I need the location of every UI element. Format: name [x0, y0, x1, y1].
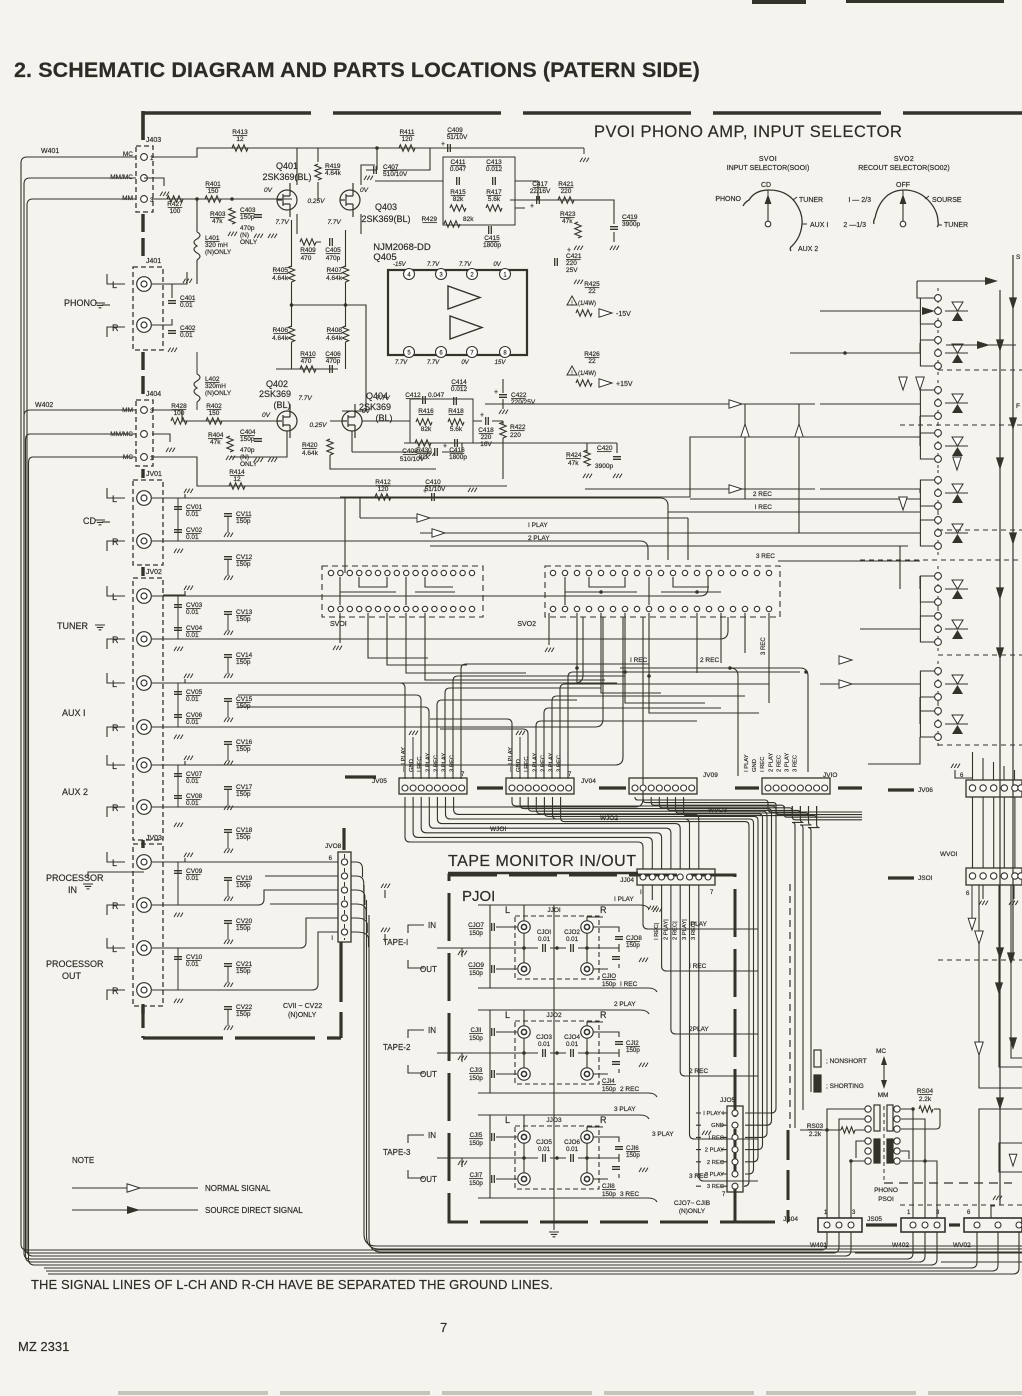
WV02 pin3	[1016, 1222, 1022, 1228]
right vline 2	[1012, 255, 1014, 960]
WV02 pin1	[974, 1222, 980, 1228]
svg-text:WJO2: WJO2	[600, 815, 618, 822]
svg-text:L: L	[112, 494, 117, 504]
svg-text:150p: 150p	[236, 561, 251, 568]
JS04 pin2	[836, 1222, 842, 1228]
JJ04 pin 6	[687, 874, 693, 880]
svg-text:CJII: CJII	[470, 1027, 481, 1034]
svg-text:I REC: I REC	[630, 657, 648, 664]
svg-text:CV16: CV16	[236, 739, 253, 746]
JV04 pin 6	[550, 785, 556, 791]
heavy dash b	[477, 786, 503, 789]
JV08 curl 3	[351, 890, 365, 905]
svg-text:2PLAY: 2PLAY	[689, 1026, 709, 1033]
svg-text:2SK369(BL): 2SK369(BL)	[361, 214, 410, 224]
svg-text:ONLY: ONLY	[240, 239, 258, 246]
svg-text:WJOI: WJOI	[490, 826, 506, 833]
JJOI left rail	[490, 905, 517, 988]
CD gnd stub	[102, 521, 110, 523]
svg-text:0V: 0V	[362, 408, 371, 415]
JV05 pin 6	[443, 785, 449, 791]
svg-text:3900p: 3900p	[595, 463, 613, 470]
svg-text:220: 220	[561, 188, 572, 195]
PS01 wire L2	[839, 1119, 865, 1218]
JV08 heavy top	[342, 828, 345, 850]
wire W402 MM/MC	[26, 434, 926, 1262]
svg-text:CV12: CV12	[236, 554, 253, 561]
Q405 pin 3	[436, 269, 447, 280]
top heavy border corner	[141, 111, 145, 140]
svg-text:PHONO: PHONO	[874, 1187, 898, 1194]
wire JV04 pin4 feed	[536, 721, 697, 779]
right dashed h 1205	[900, 1204, 1022, 1206]
R404 gnd	[226, 456, 235, 460]
svg-text:150p: 150p	[236, 1011, 251, 1018]
switch SW7 pin3	[935, 599, 942, 606]
svg-text:100: 100	[170, 208, 181, 215]
svg-text:CJI6: CJI6	[626, 1145, 639, 1152]
svg-text:PROCESSOR: PROCESSOR	[46, 873, 104, 883]
JV04 pin 5	[541, 785, 547, 791]
JJOI jack R in	[581, 921, 593, 933]
svg-text:J404: J404	[146, 391, 161, 398]
switch SW2 bracket	[920, 340, 934, 366]
AUX1 jack R	[137, 720, 152, 735]
svg-text:150p: 150p	[236, 659, 251, 666]
op-amp U Q405 box	[388, 270, 527, 355]
SV02 inner wires	[565, 577, 721, 605]
PS01 wire R1b	[934, 1108, 940, 1110]
amp wire b	[297, 165, 375, 234]
right vline2 arrow 1050	[1009, 1037, 1017, 1050]
svg-text:CV04: CV04	[186, 625, 203, 632]
svg-text:ONLY: ONLY	[240, 461, 258, 468]
svg-text:JV02: JV02	[146, 569, 162, 576]
wire JV05 pin8 feed	[461, 664, 649, 779]
JJ04 below wire 3	[662, 885, 758, 971]
transistor Q403	[340, 190, 360, 210]
right vline 1	[999, 290, 1001, 1205]
SV02 bot pin 4	[586, 606, 591, 611]
right edge switch tri	[1009, 1154, 1017, 1166]
R403 gnd	[228, 232, 237, 236]
transistor Q402	[277, 411, 297, 431]
wire 2rec low	[690, 668, 808, 772]
SV01 bot pin 15	[460, 606, 465, 611]
switch SW9 tri hollow	[952, 675, 963, 684]
bundle JV09 wire 3	[651, 797, 784, 808]
SV02 bot pin 1	[550, 606, 555, 611]
svg-text:R416: R416	[418, 408, 434, 415]
JV08 bundle 1	[364, 885, 1022, 1246]
Q405 pin 1	[500, 269, 511, 280]
svg-text:150p: 150p	[236, 791, 251, 798]
SV01 bot pin 10	[413, 606, 418, 611]
svg-text:3 REC: 3 REC	[707, 1184, 724, 1190]
resistor R416	[416, 419, 432, 425]
JV09 pin 6	[673, 785, 679, 791]
connector JV02	[133, 578, 163, 840]
JJOI jack R out	[581, 963, 593, 975]
heavy chain seg2	[141, 352, 144, 396]
colA gnd	[174, 913, 183, 917]
jack gnd stub	[163, 761, 185, 765]
SV02 needle	[902, 200, 904, 224]
svg-text:C420: C420	[597, 445, 613, 452]
TAPE-2 bracket	[408, 1030, 424, 1073]
connector J401	[133, 267, 163, 350]
svg-text:7.7V: 7.7V	[376, 395, 390, 402]
JJO3 left rail	[490, 1115, 517, 1198]
amp mid wires	[276, 220, 366, 411]
note line 1	[72, 1187, 198, 1189]
wire JV04 pin1 feed	[430, 719, 512, 779]
svg-text:JSOI: JSOI	[918, 875, 933, 882]
JJ05 wire 6	[696, 1173, 727, 1175]
svg-text:R414: R414	[229, 469, 245, 476]
svg-text:R: R	[112, 537, 119, 547]
svg-text:3 PLAY|: 3 PLAY|	[682, 919, 688, 940]
JV04 pin 2	[517, 785, 523, 791]
switch SW2 pin1	[935, 337, 942, 344]
switch SW8 pin1	[935, 613, 942, 620]
switch SW1 tri hollow	[952, 302, 963, 311]
sw entry 8	[860, 576, 920, 629]
PS01 wire R3	[901, 1119, 925, 1218]
bundle JV10 wire 5	[792, 806, 803, 1128]
bundle JV04 wire 6	[553, 797, 754, 1174]
switch SW4 pin1	[935, 430, 942, 437]
SV01 tick tuner	[793, 197, 797, 200]
right drop short1	[971, 885, 973, 920]
ps arrow down	[881, 1080, 887, 1089]
JV06 gnd wire	[955, 770, 972, 778]
JJ04 pin 8	[705, 874, 711, 880]
right drop wire 2	[982, 797, 984, 868]
jack gnd stub	[163, 858, 185, 862]
PS01 TL bar	[874, 1105, 880, 1131]
legend shorting sym	[814, 1075, 821, 1092]
wire W402 MC	[29, 457, 938, 1265]
JJ05 wire 3	[696, 1136, 727, 1138]
capacitor CV03	[174, 605, 182, 608]
svg-text:CJO7~ CJIB: CJO7~ CJIB	[674, 1200, 710, 1207]
svg-text:CV01: CV01	[186, 504, 203, 511]
svg-text:W402: W402	[35, 402, 53, 409]
svg-text:0.01: 0.01	[186, 875, 199, 882]
JV08 gnds	[381, 884, 390, 888]
svg-text:150p: 150p	[236, 882, 251, 889]
wire MM to amp	[152, 198, 292, 200]
warn R426	[567, 366, 577, 375]
svg-text:R403: R403	[210, 211, 226, 218]
JS01 gnds	[979, 901, 988, 905]
svg-text:C412: C412	[405, 392, 421, 399]
svg-text:I REC: I REC	[760, 757, 766, 772]
switch SW9 pin3	[935, 694, 942, 701]
svg-text:TAPE-3: TAPE-3	[383, 1148, 411, 1157]
switch SW8 bar	[945, 628, 968, 630]
svg-text:(N)ONLY: (N)ONLY	[288, 1012, 317, 1019]
svg-text:+15V: +15V	[616, 381, 633, 388]
bus wire 1REC	[668, 511, 920, 513]
CV16 stem	[227, 745, 229, 761]
CV21 gnd	[224, 983, 233, 987]
svg-text:12: 12	[233, 476, 241, 483]
connector JV03	[133, 844, 163, 1006]
JV08 left stub 1	[152, 861, 338, 863]
JV08 bundle 2	[367, 900, 1022, 1249]
jack top gnd	[184, 853, 193, 857]
C421 gnd	[574, 280, 583, 284]
PS01 TL pins	[865, 1106, 871, 1112]
svg-text:+: +	[494, 389, 498, 396]
right drop wire 4	[1003, 797, 1005, 868]
svg-text:0.01: 0.01	[186, 961, 199, 968]
svg-text:100: 100	[174, 410, 185, 417]
capacitor CV13	[224, 612, 232, 615]
right drop wire 5	[1014, 797, 1016, 868]
svg-text:AUX I: AUX I	[62, 708, 86, 718]
colA gnd	[174, 823, 183, 827]
bus wire 3REC	[778, 560, 920, 562]
JV08 pin 4	[341, 901, 347, 907]
AUX1 bracket R	[107, 727, 125, 737]
heavy chain JV03 down	[141, 1004, 144, 1038]
tape center gnd	[549, 1232, 559, 1237]
svg-text:PROCESSOR: PROCESSOR	[46, 959, 104, 969]
switch SW4 tri hollow	[952, 437, 963, 446]
cap col A line	[177, 498, 179, 541]
svg-text:2 REC: 2 REC	[776, 755, 782, 772]
bundle JV04 wire 2	[520, 797, 771, 1125]
svg-text:150p: 150p	[602, 1191, 616, 1198]
svg-text:0V: 0V	[461, 360, 469, 366]
svg-text:3: 3	[852, 1210, 856, 1216]
JJOI jack stems	[524, 905, 603, 963]
svg-text:510/10V: 510/10V	[400, 456, 425, 463]
svg-text:0.047: 0.047	[428, 392, 445, 399]
SV02 top pin 15	[718, 570, 723, 575]
amp wire a	[297, 148, 318, 214]
svg-text:C422: C422	[511, 392, 527, 399]
CV22 stem	[227, 1010, 229, 1026]
resistor R421	[558, 197, 574, 203]
wire AUX1 L run	[152, 617, 583, 683]
resistor R404	[227, 436, 233, 452]
svg-text:I REC: I REC	[620, 981, 638, 988]
svg-text:Q403: Q403	[375, 202, 397, 212]
svg-text:15V: 15V	[495, 360, 507, 366]
right long v2	[999, 885, 1022, 1067]
JV08 curl 6	[351, 932, 369, 947]
capacitor CV12	[224, 557, 232, 560]
capacitor CJO8	[615, 937, 623, 940]
PROC jack L	[137, 855, 152, 870]
svg-text:J401: J401	[146, 258, 161, 265]
SV02 bot pin 18	[754, 606, 759, 611]
svg-text:INPUT SELECTOR(SOOI): INPUT SELECTOR(SOOI)	[727, 165, 810, 172]
JV08 pin 1	[341, 859, 347, 865]
svg-text:150p: 150p	[469, 970, 483, 977]
svg-text:CV09: CV09	[186, 868, 203, 875]
svg-text:470p: 470p	[326, 358, 341, 365]
capacitor CV22	[224, 1007, 232, 1010]
bottom frame extra right 1	[855, 1252, 1022, 1254]
JV08 left stub 2	[265, 875, 338, 877]
resistor R409	[300, 239, 316, 245]
AUX2 jack L	[137, 758, 152, 773]
resistor R407	[342, 266, 348, 282]
JJOI left gnd	[458, 951, 467, 955]
switch SW7 tri hollow	[952, 580, 963, 589]
svg-text:2.2k: 2.2k	[919, 1096, 932, 1103]
SV01 bot pin 8	[394, 606, 399, 611]
right vline1 arrow 600	[996, 587, 1004, 600]
switch SW3 tri solid	[952, 404, 963, 413]
C404 gnd	[254, 458, 263, 462]
svg-text:I REC|: I REC|	[654, 923, 660, 940]
SV01 dial arc	[743, 190, 802, 251]
svg-text:0.01: 0.01	[186, 696, 199, 703]
box C411 area	[443, 157, 515, 225]
svg-text:7.7V: 7.7V	[275, 219, 289, 226]
JV05 gnd sym	[409, 731, 418, 735]
resistor R422	[500, 422, 506, 438]
CD jack R	[137, 534, 152, 549]
svg-text:(N): (N)	[240, 232, 249, 239]
JJ05 pin 6	[732, 1171, 738, 1177]
jack top gnd	[184, 489, 193, 493]
SV01 bot pin 1	[328, 606, 333, 611]
svg-text:2 PLAY: 2 PLAY	[614, 1001, 636, 1008]
SV01 top pin 16	[469, 570, 474, 575]
svg-text:4.64k: 4.64k	[325, 170, 342, 177]
PS01 dashed	[883, 1106, 885, 1181]
JJ04 pin 2	[649, 874, 655, 880]
svg-text:7.7V: 7.7V	[459, 262, 472, 268]
JJOI mid wire	[437, 947, 619, 949]
svg-text:JV01: JV01	[146, 471, 162, 478]
PROC gnd wire	[88, 872, 144, 878]
JV08 inner dashed	[344, 854, 346, 940]
heavy chain seg5	[141, 840, 144, 848]
JS04 pin3	[848, 1222, 854, 1228]
wire 1rec low	[620, 668, 738, 776]
svg-text:OUT: OUT	[62, 971, 82, 981]
connector JS01	[966, 868, 1022, 885]
JJ05 gnd	[702, 1131, 711, 1135]
SV02 bot pin 9	[646, 606, 651, 611]
bundle JV09 wire 7	[684, 797, 817, 819]
heavy dash js0405	[866, 1223, 897, 1226]
svg-text:2 REC|: 2 REC|	[673, 921, 679, 940]
svg-text:I REC: I REC	[524, 757, 530, 772]
PS01 BR pins	[894, 1138, 900, 1144]
right long v1	[979, 885, 1022, 1088]
right long v3	[1011, 885, 1022, 1058]
svg-text:SVOI: SVOI	[759, 156, 777, 163]
svg-text:L: L	[505, 1115, 510, 1125]
heavy chain seg6	[141, 1006, 144, 1014]
svg-text:CV20: CV20	[236, 918, 253, 925]
svg-text:I PLAY: I PLAY	[744, 754, 750, 772]
JJO2 jack stems	[524, 1010, 603, 1068]
svg-text:CV10: CV10	[186, 954, 203, 961]
JJO3 box	[515, 1126, 599, 1189]
capacitor CV08	[174, 796, 182, 799]
JJO2 mid wire	[437, 1052, 619, 1054]
wire JV05 pin3 feed	[238, 695, 421, 779]
capacitor C404	[254, 439, 262, 442]
SV02 top pin 19	[766, 570, 771, 575]
bundle JV09 wire 2	[643, 797, 776, 806]
J404 pin2	[141, 431, 148, 438]
hollow down arrow3	[953, 457, 961, 470]
resistor R402	[206, 418, 222, 424]
JJO3 right gnd	[639, 1168, 648, 1172]
svg-text:WVO3: WVO3	[708, 807, 728, 814]
capacitor CJO3	[543, 1049, 546, 1057]
heavy dash js01	[888, 876, 914, 879]
svg-text:3: 3	[936, 1210, 940, 1216]
svg-text:47k: 47k	[562, 218, 573, 225]
svg-text:J403: J403	[146, 137, 161, 144]
svg-text:51/10V: 51/10V	[425, 486, 446, 493]
svg-text:+: +	[423, 488, 427, 495]
svg-text:JVO8: JVO8	[325, 843, 342, 850]
bundle JV09 wire 1	[635, 797, 768, 806]
JS05 pin3	[934, 1222, 940, 1228]
PS01 wire R2	[912, 1109, 914, 1218]
svg-text:AUX 2: AUX 2	[798, 246, 818, 253]
CV17 gnd	[224, 806, 233, 810]
JJ04 pin 3	[659, 874, 665, 880]
svg-text:CV02: CV02	[186, 527, 203, 534]
JV06 pin 3	[991, 785, 997, 791]
SV02 top pin 5	[598, 570, 603, 575]
JJ05 pin 1	[732, 1110, 738, 1116]
switch SW7 pin2	[935, 586, 942, 593]
SV02 bot pin 6	[610, 606, 615, 611]
Q405 pin 4	[404, 269, 415, 280]
switch SW8 bracket	[920, 616, 934, 642]
right box dashed bottom	[884, 1182, 1012, 1184]
PS01 dot L	[849, 1159, 853, 1163]
svg-text:W401: W401	[41, 148, 59, 155]
right dashed h 960	[938, 959, 1022, 961]
JJO2 jack L out	[518, 1068, 530, 1080]
right v below arrow	[968, 918, 976, 930]
CV19 gnd	[224, 897, 233, 901]
JJOI jack L out	[518, 963, 530, 975]
capacitor CV17	[224, 787, 232, 790]
svg-text:MM: MM	[878, 1092, 889, 1099]
C403 gnd2	[268, 234, 277, 238]
SV01 top pin 12	[432, 570, 437, 575]
switch SW9 tri solid	[952, 685, 963, 694]
SV02 bot pin 12	[682, 606, 687, 611]
svg-text:470p: 470p	[326, 255, 341, 262]
capacitor CJO7	[492, 923, 495, 931]
switch SW6 dashes	[937, 510, 939, 556]
connector JV04 box	[506, 778, 574, 794]
svg-text:CV06: CV06	[186, 712, 203, 719]
bundle JV04 wire 1	[512, 797, 776, 1113]
svg-text:0.01: 0.01	[186, 800, 199, 807]
svg-text:CJO8: CJO8	[626, 935, 642, 942]
amp wire c	[375, 181, 538, 208]
